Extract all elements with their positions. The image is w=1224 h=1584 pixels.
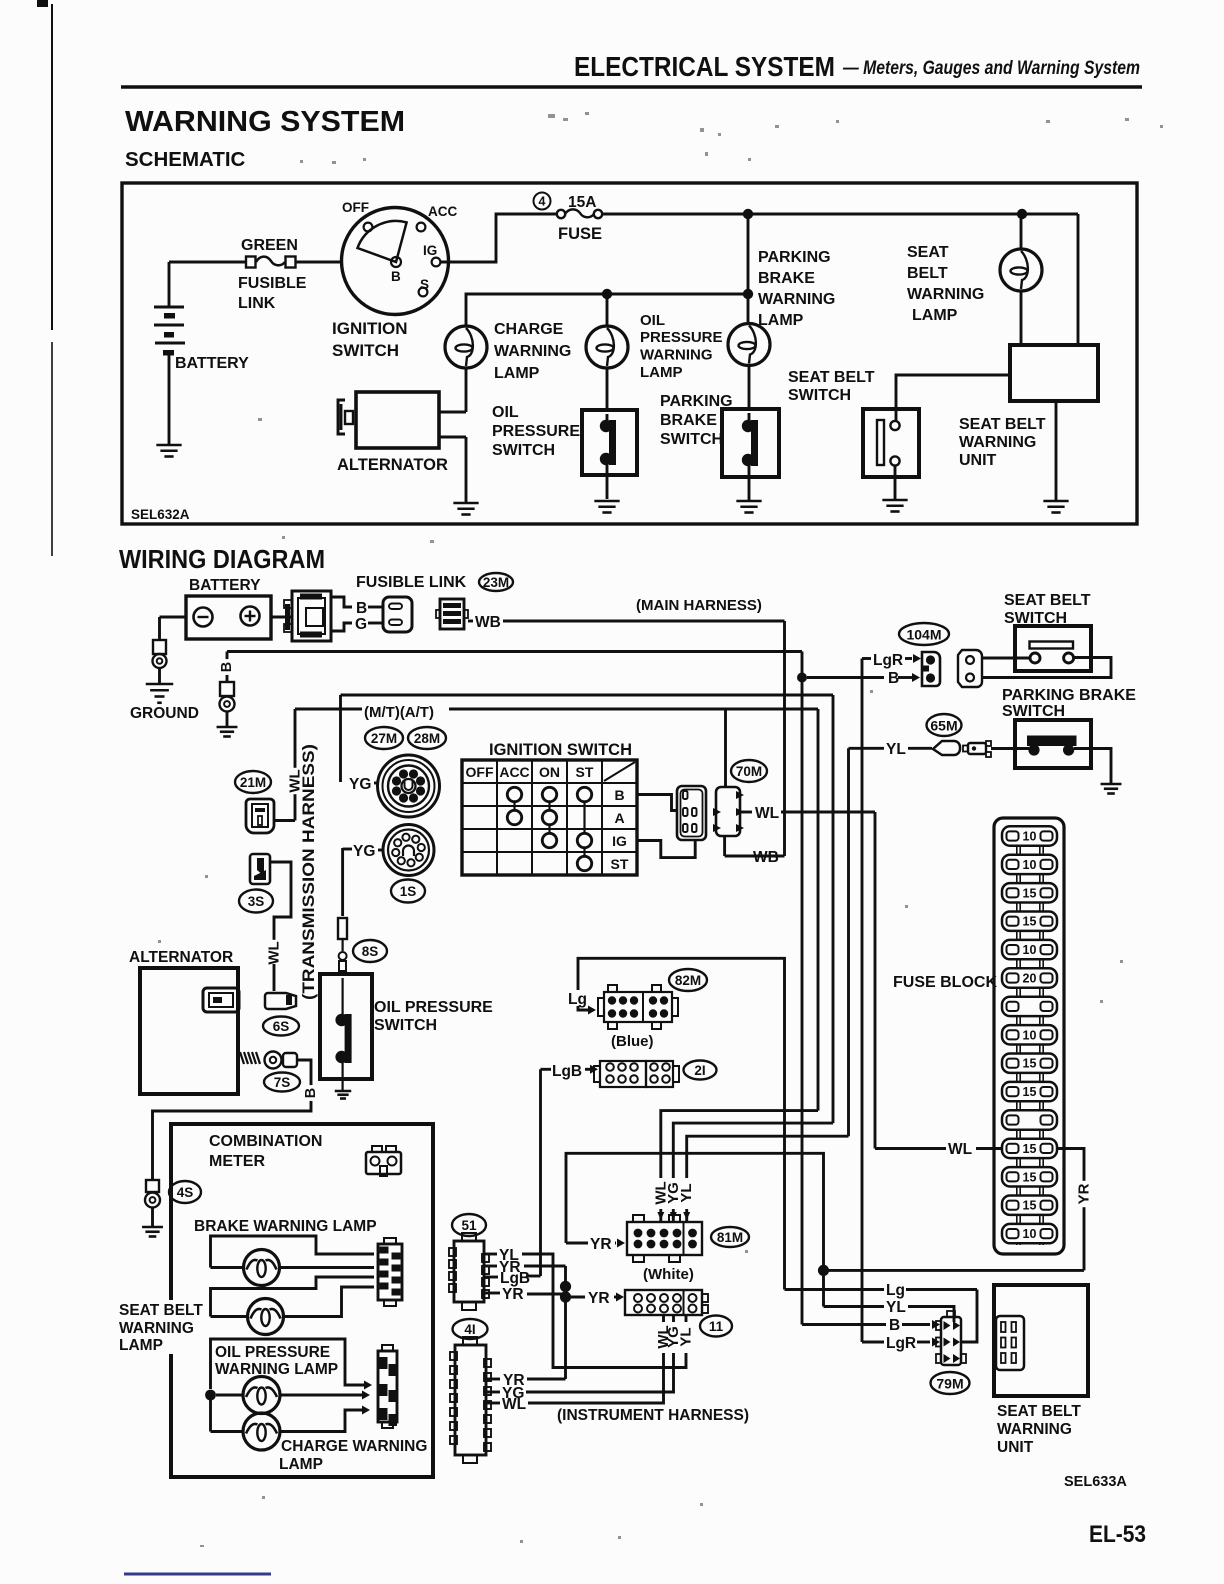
parking brake warning lamp L3	[728, 324, 770, 366]
wire MT rail to 70M top pin	[724, 709, 727, 787]
svg-text:ON: ON	[539, 764, 560, 780]
wire WB down to 70M	[783, 621, 786, 856]
svg-text:20: 20	[1023, 972, 1037, 986]
wire x748 down	[747, 214, 750, 325]
svg-text:SWITCH: SWITCH	[332, 341, 399, 360]
svg-text:S: S	[420, 277, 429, 292]
wire YR to 11	[566, 1296, 586, 1299]
svg-text:BRAKE WARNING LAMP: BRAKE WARNING LAMP	[194, 1218, 377, 1235]
svg-text:B: B	[614, 787, 624, 803]
svg-text:WARNING: WARNING	[640, 347, 713, 364]
svg-text:OIL PRESSURE: OIL PRESSURE	[215, 1344, 330, 1361]
wire 65M to parking brake switch	[991, 747, 1029, 750]
svg-text:Lg: Lg	[886, 1282, 905, 1299]
wire YG elbow to 27M	[339, 695, 342, 782]
svg-text:SEL632A: SEL632A	[131, 507, 190, 522]
svg-text:WL: WL	[755, 805, 779, 822]
connector 70M mate	[716, 787, 740, 836]
svg-text:81M: 81M	[717, 1230, 743, 1245]
svg-text:LAMP: LAMP	[912, 307, 958, 324]
svg-text:PRESSURE: PRESSURE	[640, 329, 723, 346]
svg-text:FUSE BLOCK: FUSE BLOCK	[893, 974, 997, 991]
svg-text:B: B	[889, 1317, 900, 1334]
svg-text:27M: 27M	[371, 731, 397, 746]
stepped wire WL to 81M	[661, 1111, 818, 1222]
svg-text:28M: 28M	[414, 731, 440, 746]
lower rail wire y294	[466, 294, 748, 326]
seat belt switch SW4 schematic	[896, 375, 1009, 421]
ground B wiring	[217, 726, 238, 729]
svg-text:WARNING: WARNING	[758, 291, 835, 308]
svg-text:ALTERNATOR: ALTERNATOR	[337, 456, 448, 474]
svg-text:8S: 8S	[362, 944, 379, 959]
wire 3S to 6S	[270, 862, 291, 942]
wire YL 51 to 11	[484, 1253, 497, 1256]
svg-text:WARNING: WARNING	[494, 343, 571, 360]
connector 21M	[246, 799, 274, 833]
wire seat belt switch lower loop	[982, 658, 1111, 678]
wire YL main vertical	[847, 748, 850, 1136]
wire battery to ground	[160, 616, 187, 619]
ring terminal 7S	[265, 1052, 282, 1069]
svg-text:WB: WB	[753, 849, 779, 866]
svg-text:10: 10	[1023, 830, 1037, 844]
oil pressure warning lamp L7	[216, 1394, 243, 1397]
svg-text:YG: YG	[349, 776, 371, 793]
svg-text:LINK: LINK	[238, 295, 276, 312]
svg-text:LAMP: LAMP	[279, 1456, 323, 1473]
wire alternator lower to ground	[439, 436, 466, 439]
alternator G1 schematic	[356, 392, 439, 448]
connector WB	[440, 599, 464, 629]
ground alternator schematic	[453, 502, 478, 505]
27M oval	[365, 727, 403, 749]
node dot top rail x1022	[1017, 209, 1027, 219]
node dot oil lamp branch	[602, 289, 612, 299]
svg-text:WARNING: WARNING	[997, 1421, 1072, 1438]
svg-text:PARKING: PARKING	[758, 249, 831, 266]
round connector 27M 28M	[378, 755, 440, 817]
wire table IG row to connector	[637, 840, 695, 858]
svg-text:CHARGE WARNING: CHARGE WARNING	[281, 1438, 427, 1455]
battery connector block	[271, 616, 292, 619]
svg-text:ELECTRICAL SYSTEM: ELECTRICAL SYSTEM	[574, 51, 835, 82]
svg-text:— Meters, Gauges and Warning S: — Meters, Gauges and Warning System	[842, 58, 1140, 79]
wire oil lamp to oil switch	[606, 368, 609, 411]
svg-text:EL-53: EL-53	[1089, 1521, 1146, 1548]
svg-text:SWITCH: SWITCH	[374, 1017, 437, 1034]
ground unit schematic	[1043, 500, 1068, 503]
svg-text:SCHEMATIC: SCHEMATIC	[125, 148, 246, 171]
svg-text:Lg: Lg	[568, 991, 587, 1008]
connector 2I	[600, 1061, 646, 1087]
svg-text:COMBINATION: COMBINATION	[209, 1133, 322, 1150]
svg-text:15: 15	[1023, 1170, 1037, 1184]
wire parking brake switch to ground	[1074, 749, 1111, 784]
svg-text:YL: YL	[886, 741, 906, 758]
wire LgB 2I to 51	[541, 1068, 552, 1071]
connector 65M bullet	[933, 741, 960, 755]
svg-text:10: 10	[1023, 943, 1037, 957]
svg-text:(M/T)(A/T): (M/T)(A/T)	[364, 704, 434, 721]
wire top rail right branch down to unit	[1077, 214, 1080, 346]
svg-text:OIL PRESSURE: OIL PRESSURE	[374, 999, 493, 1016]
79M oval	[931, 1372, 970, 1394]
svg-text:FUSE: FUSE	[558, 225, 602, 243]
svg-text:15: 15	[1023, 915, 1037, 929]
svg-text:UNIT: UNIT	[959, 452, 997, 469]
rotated labels WL YG YL above 81M	[653, 1178, 694, 1209]
wire YR down to 79M YL	[822, 1270, 825, 1306]
table contact circles	[507, 787, 521, 801]
70M oval	[731, 760, 767, 782]
svg-text:LAMP: LAMP	[640, 364, 683, 381]
wire fusible link to ignition switch	[296, 261, 342, 264]
7S oval	[264, 1073, 300, 1092]
page corner mark	[37, 0, 48, 7]
ground battery wiring	[146, 683, 174, 686]
wire YG main vertical	[832, 695, 835, 1123]
svg-text:B: B	[888, 670, 899, 687]
connector 3S	[250, 854, 270, 884]
svg-text:OIL: OIL	[640, 312, 665, 329]
rotated labels WL YG YL under 11	[655, 1322, 695, 1353]
wire B down to ground chain	[226, 652, 229, 683]
svg-text:YR: YR	[1076, 1183, 1093, 1204]
svg-text:SWITCH: SWITCH	[1002, 703, 1065, 720]
svg-text:FUSIBLE LINK: FUSIBLE LINK	[356, 574, 467, 591]
svg-text:YL: YL	[678, 1327, 695, 1346]
wire B to 104M	[807, 676, 884, 679]
seat belt warning unit U1 schematic	[1010, 345, 1098, 401]
svg-text:IG: IG	[423, 243, 437, 258]
svg-text:B: B	[391, 269, 401, 284]
seat belt warning lamp L6	[211, 1277, 375, 1317]
svg-text:SEAT BELT: SEAT BELT	[788, 369, 875, 386]
svg-text:51: 51	[461, 1218, 477, 1233]
svg-text:G: G	[355, 616, 367, 633]
svg-text:SEAT BELT: SEAT BELT	[1004, 592, 1091, 609]
wire G to fusible link 23M	[331, 623, 352, 631]
oil pressure warning lamp group box	[211, 1339, 367, 1389]
stepped wire YG to 81M	[673, 1123, 833, 1222]
28M oval	[408, 727, 446, 749]
svg-text:WARNING: WARNING	[959, 434, 1036, 451]
pigtail 7S	[240, 1052, 244, 1064]
svg-text:SEAT BELT: SEAT BELT	[959, 416, 1046, 433]
fuse block	[994, 818, 1064, 1254]
fusible link FL1 schematic	[246, 257, 256, 268]
node dot lamp group	[205, 1390, 216, 1401]
svg-text:4: 4	[539, 195, 546, 209]
oil pressure switch SW2 schematic	[582, 410, 637, 475]
svg-text:(White): (White)	[643, 1266, 694, 1283]
wire battery to fusible link	[169, 261, 246, 264]
ignition connector 6pin	[677, 786, 706, 840]
meter top connector icon	[366, 1152, 401, 1174]
svg-text:WIRING DIAGRAM: WIRING DIAGRAM	[119, 544, 325, 574]
node dot B to 104M	[797, 673, 807, 683]
23M oval	[479, 573, 513, 591]
svg-text:YR: YR	[590, 1236, 612, 1253]
svg-text:ST: ST	[611, 856, 629, 872]
svg-text:BATTERY: BATTERY	[189, 577, 261, 594]
wire Lg to 79M	[785, 1288, 885, 1291]
svg-text:UNIT: UNIT	[997, 1439, 1034, 1456]
svg-text:SEAT: SEAT	[907, 244, 949, 261]
scan speckle noise	[548, 114, 555, 118]
svg-text:SWITCH: SWITCH	[660, 431, 723, 448]
svg-text:GREEN: GREEN	[241, 237, 298, 254]
combination meter box	[171, 1124, 433, 1477]
svg-text:15: 15	[1023, 1142, 1037, 1156]
svg-text:SWITCH: SWITCH	[492, 442, 555, 459]
svg-text:15: 15	[1023, 1085, 1037, 1099]
svg-text:IGNITION: IGNITION	[332, 319, 408, 338]
wire WL MT vertical	[817, 709, 820, 1111]
svg-text:IG: IG	[612, 833, 627, 849]
wire B to 79M	[802, 1323, 886, 1326]
82M oval	[669, 969, 707, 991]
2I oval	[684, 1061, 717, 1080]
svg-text:A: A	[614, 810, 624, 826]
11 oval	[700, 1316, 732, 1337]
svg-text:LAMP: LAMP	[758, 312, 804, 329]
svg-text:SEAT BELT: SEAT BELT	[119, 1302, 203, 1319]
connector 41	[455, 1345, 486, 1455]
node dot top rail x748	[743, 209, 753, 219]
svg-text:(Blue): (Blue)	[611, 1033, 654, 1050]
65M oval	[927, 714, 962, 736]
wire WB to main harness	[468, 620, 473, 623]
connector B ground chain	[220, 682, 234, 696]
svg-text:GROUND: GROUND	[130, 705, 199, 722]
wire seat belt switch upper	[982, 657, 1030, 660]
wire y709 WL rail	[295, 708, 362, 711]
wire parking lamp to switch	[748, 365, 751, 410]
svg-text:7S: 7S	[274, 1075, 291, 1090]
ground parking switch schematic	[736, 500, 761, 503]
svg-text:PARKING: PARKING	[660, 393, 733, 410]
svg-text:6S: 6S	[273, 1019, 290, 1034]
stepped wire YL to 81M	[687, 1136, 849, 1222]
4S oval	[169, 1181, 201, 1203]
svg-text:ALTERNATOR: ALTERNATOR	[129, 949, 233, 966]
wire IG terminal to fuse	[440, 214, 557, 262]
fuse F1 15A	[557, 210, 565, 218]
svg-text:WL: WL	[948, 1141, 972, 1158]
svg-text:SEAT BELT: SEAT BELT	[997, 1403, 1081, 1420]
wire YG 41 to 11	[486, 1391, 500, 1394]
svg-text:WARNING: WARNING	[907, 286, 984, 303]
wire WL to fuse block	[875, 1147, 946, 1150]
svg-text:ACC: ACC	[499, 764, 529, 780]
svg-text:B: B	[303, 1088, 319, 1098]
svg-text:YL: YL	[886, 1299, 906, 1316]
connector 104M	[922, 652, 940, 686]
svg-text:(INSTRUMENT HARNESS): (INSTRUMENT HARNESS)	[557, 1407, 749, 1424]
svg-text:PARKING BRAKE: PARKING BRAKE	[1002, 687, 1136, 704]
oil pressure warning lamp L2	[606, 294, 609, 326]
svg-text:82M: 82M	[675, 973, 701, 988]
svg-text:YG: YG	[353, 843, 375, 860]
ignition switch SW1	[342, 208, 449, 315]
svg-text:65M: 65M	[930, 718, 957, 734]
svg-text:LAMP: LAMP	[119, 1337, 163, 1354]
svg-text:WB: WB	[475, 614, 501, 631]
svg-text:PRESSURE: PRESSURE	[492, 423, 580, 440]
3S oval	[239, 890, 273, 913]
svg-text:23M: 23M	[483, 575, 509, 590]
ground oil switch wiring	[335, 1090, 352, 1093]
wire WL fuse vertical	[874, 812, 877, 1149]
svg-text:YR: YR	[588, 1290, 610, 1307]
wire unit to ground	[1055, 401, 1058, 500]
svg-text:LgR: LgR	[886, 1335, 916, 1352]
svg-text:YR: YR	[499, 1259, 521, 1276]
wire YR arrow into 81M	[566, 1242, 588, 1245]
svg-text:BATTERY: BATTERY	[175, 355, 249, 372]
svg-text:21M: 21M	[240, 775, 266, 790]
wire YR main from fuse to 81M	[566, 1153, 824, 1270]
svg-text:10: 10	[1023, 1227, 1037, 1241]
wire YL to 65M	[849, 747, 885, 750]
8S oval	[353, 940, 387, 962]
svg-text:CHARGE: CHARGE	[494, 321, 564, 338]
wire WL from 70M	[740, 811, 752, 814]
wire YR 51 row4	[484, 1292, 500, 1295]
svg-text:4S: 4S	[177, 1185, 194, 1200]
svg-text:YR: YR	[502, 1286, 524, 1303]
fuses	[1002, 826, 1057, 845]
svg-text:YL: YL	[678, 1183, 695, 1202]
svg-text:4I: 4I	[464, 1322, 475, 1337]
splice 8S	[338, 918, 347, 939]
svg-text:ST: ST	[576, 764, 594, 780]
svg-text:SEL633A: SEL633A	[1064, 1474, 1127, 1490]
connector 81M	[627, 1222, 702, 1255]
svg-text:15: 15	[1023, 1057, 1037, 1071]
meter pin strip 2	[378, 1351, 397, 1422]
SEAT BELT WARNING LAMP label	[116, 1300, 208, 1354]
header rule	[121, 85, 1142, 89]
svg-text:79M: 79M	[936, 1376, 963, 1392]
svg-text:15: 15	[1023, 1199, 1037, 1213]
51 oval	[452, 1214, 486, 1236]
svg-text:11: 11	[709, 1319, 724, 1334]
unit connector 6pin	[996, 1316, 1024, 1370]
ground battery schematic	[156, 444, 181, 447]
svg-text:70M: 70M	[736, 764, 762, 779]
svg-text:BRAKE: BRAKE	[758, 270, 815, 287]
seat belt warning unit U2 wiring	[994, 1285, 1088, 1396]
seat belt warning lamp L4	[1020, 214, 1023, 250]
21M oval	[235, 771, 271, 793]
charge warning lamp L8	[209, 1395, 212, 1432]
svg-text:B: B	[356, 600, 367, 617]
svg-text:WARNING: WARNING	[119, 1320, 194, 1337]
svg-text:BELT: BELT	[907, 265, 948, 282]
svg-text:OFF: OFF	[466, 764, 494, 780]
wire YR 51 row2	[484, 1265, 497, 1268]
ground 4S	[142, 1226, 163, 1229]
connector 6S	[265, 993, 296, 1009]
svg-text:LgB: LgB	[552, 1063, 582, 1080]
connector 51	[454, 1241, 484, 1302]
wire B to fusible link 23M	[331, 597, 352, 607]
wire YR fuse block right	[1057, 1149, 1084, 1271]
svg-text:(MAIN HARNESS): (MAIN HARNESS)	[636, 597, 762, 614]
1S oval	[391, 880, 425, 903]
wire WL elbow to 21M	[294, 709, 297, 821]
81M oval	[711, 1227, 749, 1247]
page left margin line	[51, 4, 53, 330]
svg-text:(TRANSMISSION HARNESS): (TRANSMISSION HARNESS)	[300, 744, 318, 1000]
battery B1 schematic	[168, 262, 171, 307]
svg-text:WL: WL	[266, 941, 283, 964]
connector 65M mate	[968, 743, 986, 754]
svg-text:1S: 1S	[400, 884, 417, 899]
ground seat belt switch schematic	[882, 499, 907, 502]
svg-text:ACC: ACC	[428, 204, 457, 219]
wire oil switch up to 1S YG	[341, 848, 344, 916]
svg-text:2I: 2I	[694, 1063, 705, 1078]
wire YR branch to unit box	[824, 1269, 1085, 1272]
round connector 1S	[383, 825, 434, 876]
wire 7S B to 4S ground chain	[153, 1060, 312, 1180]
svg-text:WL: WL	[502, 1396, 526, 1413]
alternator connector	[203, 988, 239, 1012]
connector 11	[625, 1290, 702, 1315]
brake warning lamp L5	[211, 1236, 375, 1268]
meter pin strip 1	[378, 1244, 402, 1300]
charge warning lamp L1	[445, 326, 487, 368]
svg-text:10: 10	[1023, 1028, 1037, 1042]
svg-text:LgR: LgR	[873, 652, 903, 669]
wire B main	[227, 650, 802, 653]
connector 104M mate	[958, 650, 982, 687]
svg-text:15A: 15A	[568, 194, 596, 211]
svg-text:METER: METER	[209, 1153, 265, 1170]
parking brake switch SW3 schematic	[722, 409, 779, 477]
schematic border box	[122, 183, 1137, 524]
ground oil switch schematic	[594, 500, 619, 503]
svg-text:OIL: OIL	[492, 404, 519, 421]
wire charge lamp to alternator	[465, 368, 468, 412]
svg-text:104M: 104M	[906, 627, 941, 643]
wire table B row to connector	[637, 795, 678, 811]
wire fuse to top rail	[602, 213, 1078, 216]
wire y695 YG rail	[341, 694, 834, 697]
wire Lg from 82M	[578, 958, 785, 1289]
node dot YR	[818, 1265, 829, 1276]
svg-text:IGNITION SWITCH: IGNITION SWITCH	[489, 741, 632, 759]
104M oval	[899, 623, 949, 645]
svg-text:LAMP: LAMP	[494, 365, 540, 382]
svg-text:B: B	[219, 662, 235, 672]
svg-text:WARNING LAMP: WARNING LAMP	[215, 1361, 338, 1378]
ground parking brake switch wiring	[1101, 783, 1122, 786]
wire YR vertical with dots	[564, 1266, 567, 1379]
svg-text:10: 10	[1023, 858, 1037, 872]
wire YR to 41	[527, 1378, 566, 1381]
41 oval	[453, 1319, 488, 1339]
svg-text:OFF: OFF	[342, 200, 369, 215]
connector 79M	[941, 1317, 961, 1365]
svg-text:SWITCH: SWITCH	[788, 387, 851, 404]
svg-text:15: 15	[1023, 886, 1037, 900]
svg-text:FUSIBLE: FUSIBLE	[238, 275, 307, 292]
